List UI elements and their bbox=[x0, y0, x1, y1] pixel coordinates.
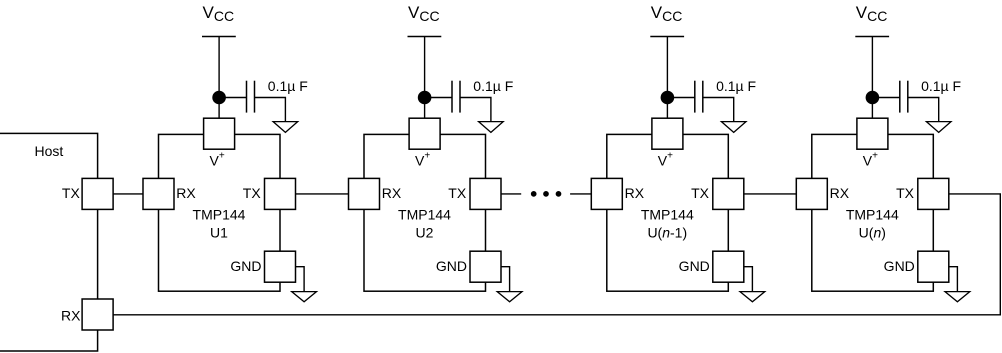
svg-text:RX: RX bbox=[61, 307, 81, 323]
svg-text:U2: U2 bbox=[416, 225, 434, 241]
svg-text:Host: Host bbox=[35, 143, 64, 159]
svg-text:TX: TX bbox=[62, 185, 81, 201]
svg-text:U1: U1 bbox=[210, 225, 228, 241]
svg-text:U(n): U(n) bbox=[859, 225, 886, 241]
svg-text:U(n-1): U(n-1) bbox=[647, 225, 687, 241]
